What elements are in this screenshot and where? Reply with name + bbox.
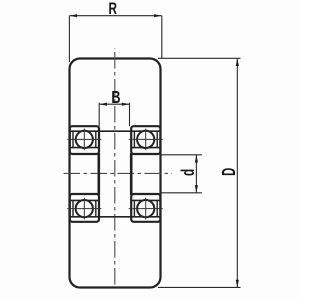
bearing upper-left: [67, 126, 101, 154]
dimension D arrow top: [236, 59, 239, 67]
dimension R line: [69, 15, 161, 17]
dimension R arrow right: [154, 14, 162, 17]
bearing lower-right: [129, 194, 163, 222]
inner race line lower-right: [131, 199, 161, 201]
inner race line upper-left: [70, 147, 99, 149]
svg-text:R: R: [108, 0, 117, 19]
inner race line upper-right: [131, 147, 161, 149]
dimension R extension right: [161, 16, 163, 58]
inner race line lower-left: [70, 199, 99, 201]
bore wall right: [130, 153, 133, 195]
dimension B arrow right: [122, 103, 130, 106]
wheel outline: [70, 59, 161, 288]
dimension B line: [99, 103, 129, 105]
bearing lower-left: [67, 194, 101, 222]
bearing upper-right: [129, 126, 163, 154]
dimension d extension bottom: [161, 192, 202, 194]
dimension D extension bottom: [158, 286, 241, 288]
svg-text:B: B: [111, 88, 120, 108]
dimension D extension top: [158, 57, 241, 59]
vertical center line: [114, 48, 116, 289]
svg-text:d: d: [178, 169, 198, 176]
dimension d line: [195, 155, 197, 193]
dimension d arrow top: [195, 155, 198, 163]
dimension B extension left: [98, 103, 100, 127]
horizontal center line (axis): [61, 172, 173, 174]
dimension B arrow left: [99, 103, 107, 106]
dimension D arrow bottom: [236, 280, 239, 288]
hub race line lower (crosses bore gap): [70, 216, 161, 218]
dimension R extension left: [68, 16, 70, 62]
svg-text:D: D: [219, 168, 240, 176]
dimension D line: [236, 58, 238, 287]
dimension d arrow bottom: [195, 185, 198, 193]
dimension B extension right: [129, 103, 131, 127]
bore wall left: [98, 153, 101, 195]
dimension d extension top: [161, 154, 202, 156]
hub race line upper (crosses bore gap): [70, 130, 161, 132]
dimension R arrow left: [70, 14, 78, 17]
